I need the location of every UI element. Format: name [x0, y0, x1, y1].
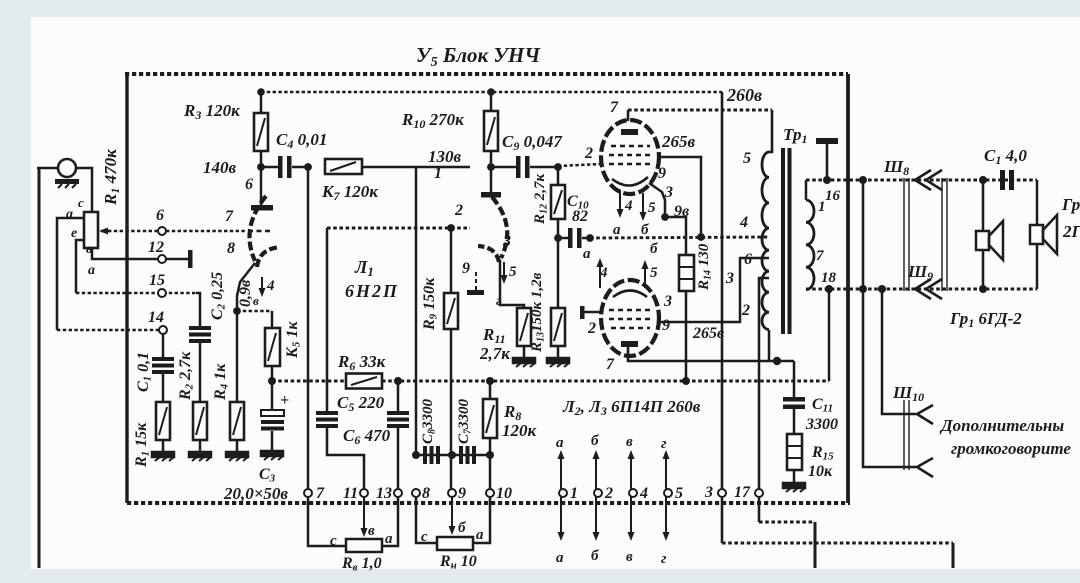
svg-text:9: 9	[662, 317, 670, 334]
svg-text:5: 5	[650, 265, 658, 281]
wire mic left	[37, 167, 58, 170]
wire L2 screen to tap4	[658, 157, 701, 237]
transformer secondary winding	[806, 200, 814, 290]
terminal 3	[718, 489, 726, 497]
grid wire dash to second triode	[327, 227, 470, 230]
svg-text:б: б	[591, 433, 599, 449]
connector Sh8 chevrons	[915, 170, 931, 190]
svg-text:11: 11	[343, 485, 358, 502]
cathode L1b to R11	[500, 260, 524, 308]
svg-text:4: 4	[739, 214, 748, 231]
wire coil bottom to plate wire	[768, 330, 771, 361]
svg-text:с: с	[330, 533, 337, 549]
terminal 2 with arrows	[594, 489, 602, 497]
svg-text:4: 4	[599, 265, 608, 281]
potentiometer R1	[84, 212, 98, 248]
junction bus R8	[486, 377, 494, 385]
wire R4 column	[236, 311, 239, 402]
svg-text:13: 13	[376, 485, 392, 502]
svg-text:3: 3	[663, 293, 672, 310]
terminal 7	[304, 489, 312, 497]
svg-text:а: а	[583, 246, 591, 262]
resistor R3	[254, 113, 268, 151]
wire Rn loop left	[416, 497, 437, 543]
svg-text:7: 7	[610, 99, 619, 116]
svg-text:1: 1	[434, 165, 442, 182]
wire C4 junction down to terminal 7	[307, 167, 310, 489]
terminal 17	[755, 489, 763, 497]
triode L1a plate bar	[251, 205, 273, 211]
wire R15 ground	[793, 470, 796, 483]
junction ground speaker wire	[823, 176, 831, 184]
svg-text:R14 130: R14 130	[696, 243, 714, 291]
wire L2 plate to transformer tap5	[627, 110, 630, 121]
wire R1 to ground	[162, 440, 165, 452]
capacitor C6	[397, 381, 400, 411]
terminal 14	[159, 326, 167, 334]
speaker return wire y289	[806, 288, 1037, 291]
ground C3	[261, 451, 283, 460]
svg-text:5: 5	[648, 200, 656, 216]
svg-text:а: а	[66, 207, 73, 222]
junction plate wire coil	[773, 357, 781, 365]
wire long left vertical	[38, 168, 41, 568]
block U5 border top	[125, 72, 848, 76]
wire C2 to R2	[199, 343, 202, 402]
wire C3 ground	[271, 431, 274, 451]
svg-text:б: б	[591, 548, 599, 564]
tube L3 envelope	[601, 280, 659, 356]
svg-text:15: 15	[149, 272, 165, 289]
wire L3 plate y361	[628, 347, 794, 361]
node 260v supply rail wire	[261, 91, 722, 94]
chevron W10 upper	[917, 405, 933, 424]
wire C1 to R1	[162, 374, 165, 402]
main bus wire left of R6	[272, 380, 346, 383]
cathode L2 wire to R14	[649, 183, 665, 217]
capacitor C4	[261, 166, 278, 169]
junction C9 out	[554, 163, 562, 171]
junction y289 W10a	[859, 285, 867, 293]
svg-text:8: 8	[227, 240, 235, 257]
svg-text:20,0×50в: 20,0×50в	[223, 484, 288, 503]
svg-text:C9 0,047: C9 0,047	[502, 132, 563, 153]
tube L3 top inner arc	[613, 291, 647, 298]
svg-text:5: 5	[743, 150, 751, 167]
connector Sh8 lines	[903, 178, 905, 291]
wire R3 top	[260, 92, 263, 113]
svg-text:Гр: Гр	[1061, 195, 1080, 214]
wire secondary top	[805, 180, 808, 200]
svg-text:громкоговорите: громкоговорите	[951, 439, 1071, 458]
svg-text:7: 7	[316, 485, 325, 502]
resistor R9	[444, 293, 458, 329]
resistor R5	[265, 328, 280, 366]
wire R4 ground	[236, 440, 239, 452]
junction after C10	[586, 234, 594, 242]
resistor R12	[557, 167, 560, 185]
svg-text:1: 1	[570, 485, 578, 502]
svg-text:в: в	[626, 434, 633, 450]
svg-text:18: 18	[821, 270, 837, 286]
wire capacitor row y455	[416, 454, 490, 457]
junction grid wire R9	[447, 224, 455, 232]
capacitor C8	[423, 446, 427, 464]
capacitor C11	[783, 397, 805, 402]
wire Rv loop right	[382, 497, 398, 546]
capacitor C9	[491, 166, 516, 169]
svg-text:в: в	[368, 523, 375, 539]
wire y238 to transformer tap 4	[590, 237, 769, 238]
svg-text:17: 17	[734, 484, 751, 501]
wire to terminal 15	[76, 292, 196, 295]
svg-text:4: 4	[266, 278, 275, 294]
speaker Gr2 wire	[1036, 180, 1039, 225]
capacitor C1	[152, 357, 174, 361]
svg-text:б: б	[641, 222, 649, 238]
triode L1a cathode hook	[257, 247, 280, 267]
svg-text:Л2, Л3 6П14П 260в: Л2, Л3 6П14П 260в	[562, 397, 701, 418]
svg-text:в: в	[626, 549, 633, 565]
resistor R7	[325, 159, 362, 174]
svg-text:К5 1к: К5 1к	[284, 321, 303, 359]
wire plate down to C11	[793, 361, 796, 397]
wire R7 right to 130v node	[362, 166, 470, 169]
svg-text:3: 3	[704, 484, 713, 501]
terminal 11	[360, 489, 368, 497]
svg-text:б: б	[458, 520, 466, 536]
wire wiper to grid (terminal 6)	[108, 230, 247, 233]
transformer primary winding	[762, 152, 769, 330]
triode L1b cathode hook	[478, 246, 499, 262]
svg-text:R1 470к: R1 470к	[101, 149, 122, 206]
junction y289 W10b	[878, 285, 886, 293]
connector Sh10 lines	[903, 400, 905, 470]
grid stub L3	[580, 306, 585, 319]
svg-text:10к: 10к	[808, 463, 833, 480]
terminal 6	[158, 227, 166, 235]
svg-text:10: 10	[496, 485, 512, 502]
transformer core	[781, 148, 785, 334]
speaker Gr1	[976, 231, 989, 250]
svg-text:г: г	[661, 551, 667, 567]
arrow 11 down to Rv	[363, 497, 365, 530]
wire R10 top	[490, 92, 493, 111]
cathode wire L1a to 0.9v node	[237, 263, 255, 311]
terminal 13	[394, 489, 402, 497]
svg-text:C73300: C73300	[456, 398, 474, 444]
svg-text:Дополнительны: Дополнительны	[939, 416, 1064, 435]
resistor R14	[679, 255, 694, 291]
resistor Rn	[437, 537, 473, 550]
svg-text:7: 7	[225, 208, 234, 225]
svg-text:5: 5	[509, 264, 517, 280]
triode L1a grid dashes	[248, 230, 270, 233]
svg-text:260в: 260в	[726, 85, 762, 105]
tube L2 grid dashes	[611, 145, 650, 148]
capacitor C2	[189, 326, 211, 330]
svg-text:2: 2	[454, 202, 463, 219]
wire y289 down to bus	[828, 289, 831, 381]
capacitor C10	[558, 237, 568, 240]
wire bottom exit right down	[952, 543, 955, 568]
svg-text:C5 220: C5 220	[337, 393, 385, 414]
tube L2 envelope	[601, 120, 659, 194]
wire R2 to ground	[199, 440, 202, 452]
wire Rn loop right	[473, 497, 490, 543]
svg-text:в: в	[253, 293, 259, 308]
wire C11 to R15	[793, 409, 796, 434]
svg-text:а: а	[88, 263, 95, 278]
svg-text:а: а	[385, 531, 393, 547]
junction y180 W10 branch	[859, 176, 867, 184]
svg-text:г: г	[496, 294, 501, 309]
svg-text:Rн 10: Rн 10	[439, 553, 477, 572]
wire rail down to terminal 3	[721, 92, 724, 489]
svg-text:6: 6	[744, 251, 752, 268]
wire 14 down to C1	[162, 334, 165, 357]
svg-text:130в: 130в	[428, 147, 462, 166]
svg-text:3: 3	[725, 270, 734, 287]
block U5 border right	[846, 74, 850, 503]
capacitor C1 speaker	[1000, 170, 1005, 190]
junction 130v node	[487, 163, 495, 171]
svg-text:Rв 1,0: Rв 1,0	[341, 555, 382, 574]
svg-text:9: 9	[658, 165, 666, 182]
resistor R11	[517, 308, 531, 346]
tube L3 grid dashes	[609, 309, 652, 312]
speaker Gr2	[1030, 225, 1043, 244]
junction 0.9v	[233, 307, 241, 315]
svg-text:16: 16	[825, 188, 841, 204]
wire R5 bottom	[271, 366, 274, 381]
resistor R2	[193, 402, 207, 440]
wire L3 screen to tap6	[659, 258, 769, 322]
resistor R1 15k	[156, 402, 170, 440]
terminal 4 with arrows	[629, 489, 637, 497]
svg-text:265в: 265в	[661, 132, 696, 151]
svg-text:C6 470: C6 470	[343, 426, 391, 447]
arrow pin 5 L1b	[503, 262, 505, 278]
wire R12 bottom	[557, 219, 560, 238]
svg-text:R1 15к: R1 15к	[133, 422, 152, 468]
svg-text:3300: 3300	[805, 416, 838, 433]
junction R10 rail	[487, 88, 495, 96]
junction y289 speaker1	[979, 285, 987, 293]
wire to R5 top	[271, 311, 274, 328]
capacitor C3 electrolytic	[271, 381, 274, 410]
svg-text:6: 6	[245, 176, 253, 193]
junction bus C6	[394, 377, 402, 385]
junction R5 bus	[268, 377, 276, 385]
terminal 8	[412, 489, 420, 497]
svg-text:+: +	[280, 392, 289, 409]
svg-text:R4 1к: R4 1к	[212, 363, 231, 401]
arrow 9 down to Rn	[451, 497, 453, 528]
resistor R10	[484, 111, 498, 151]
ground R2	[189, 452, 211, 461]
junction C4 R7	[304, 163, 312, 171]
terminal 9	[448, 489, 456, 497]
svg-text:4: 4	[624, 198, 633, 214]
resistor R4	[230, 402, 244, 440]
arrow pin 4 down	[261, 277, 263, 292]
junction C10 node	[554, 234, 562, 242]
wire 15 down to C2 column	[196, 293, 200, 326]
tube L2 anode bar	[621, 129, 638, 135]
svg-text:82: 82	[572, 208, 588, 225]
svg-text:120к: 120к	[502, 421, 537, 440]
chevron W10 lower	[917, 458, 933, 477]
svg-text:R3 120к: R3 120к	[183, 101, 240, 122]
wire terminal 3 below block	[721, 497, 724, 543]
wire 0.9v to R5	[237, 310, 272, 313]
ground R1	[152, 452, 174, 461]
svg-text:Гр1 6ГД-2: Гр1 6ГД-2	[949, 309, 1022, 330]
svg-text:2Г: 2Г	[1062, 222, 1080, 241]
wire R10 bottom	[490, 151, 493, 192]
svg-text:5: 5	[675, 485, 683, 502]
junction R3 rail	[257, 88, 265, 96]
svg-text:C83300: C83300	[420, 398, 438, 444]
ground R13	[557, 346, 560, 358]
svg-text:г: г	[661, 436, 667, 452]
svg-text:R6 33к: R6 33к	[337, 352, 386, 373]
capacitor C5	[316, 411, 338, 415]
wire pot mid-left	[76, 240, 84, 293]
svg-text:2: 2	[587, 320, 596, 337]
svg-text:с: с	[421, 529, 428, 545]
terminal 1 with arrows	[559, 489, 567, 497]
svg-text:C2 0,25: C2 0,25	[209, 272, 228, 320]
svg-text:12: 12	[148, 239, 164, 256]
wire tap3 to terminal 17	[759, 278, 769, 489]
svg-text:9: 9	[458, 485, 466, 502]
svg-text:C1 4,0: C1 4,0	[984, 146, 1027, 167]
svg-text:C1 0,1: C1 0,1	[135, 352, 154, 392]
svg-text:R2 2,7к: R2 2,7к	[177, 351, 196, 401]
junction y180 speaker1	[979, 176, 987, 184]
speaker Gr1 wire	[982, 180, 985, 231]
capacitor C7	[459, 446, 463, 464]
junction y455 right	[486, 451, 494, 459]
wire W10 upper	[882, 289, 916, 414]
block U5 border bottom	[127, 501, 850, 505]
svg-text:а: а	[556, 435, 564, 451]
svg-text:6Н2П: 6Н2П	[345, 281, 399, 301]
terminal 12	[158, 255, 166, 263]
svg-text:К7 120к: К7 120к	[321, 182, 378, 203]
wire R14 to bus	[685, 291, 688, 381]
tube L3 anode bar	[621, 341, 638, 347]
main bus wire right of R6	[382, 380, 829, 383]
wire C9 to L2 grid	[558, 164, 601, 166]
junction y455 left	[412, 451, 420, 459]
svg-text:а: а	[556, 550, 564, 566]
junction y455 mid	[448, 451, 456, 459]
svg-text:9: 9	[462, 260, 470, 277]
terminal 10	[486, 489, 494, 497]
svg-text:140в: 140в	[203, 158, 237, 177]
junction screen tap4	[697, 233, 705, 241]
triode L1b plate bar	[481, 192, 501, 198]
svg-text:2: 2	[604, 485, 613, 502]
svg-text:6: 6	[156, 207, 164, 224]
resistor R6	[346, 374, 382, 389]
wire to terminal 14	[57, 329, 163, 332]
ground R11	[523, 346, 526, 358]
triode L1b envelope arc	[492, 197, 507, 258]
ground stub pin 9	[475, 272, 477, 290]
wire C6 down to terminal 13	[397, 428, 400, 489]
svg-text:14: 14	[148, 309, 164, 326]
wire R8 down to terminal 10	[489, 438, 492, 489]
terminal 15	[158, 289, 166, 297]
triode L1a envelope arc	[250, 196, 266, 261]
svg-text:а: а	[476, 527, 484, 543]
svg-text:R10 270к: R10 270к	[401, 110, 464, 131]
ground R15	[783, 483, 805, 492]
block U5 border left	[125, 75, 128, 503]
svg-text:R9 150к: R9 150к	[421, 277, 440, 331]
wire R9 down to terminal 9	[450, 329, 453, 489]
svg-text:4: 4	[639, 485, 648, 502]
microphone symbol	[58, 159, 76, 177]
wire C5 down to terminal 11	[327, 428, 364, 489]
wire R9 top	[450, 228, 453, 293]
resistor R15	[787, 434, 802, 470]
svg-text:265в: 265в	[692, 325, 724, 342]
wire grid corner down C5	[326, 228, 329, 411]
resistor Rv	[346, 539, 382, 552]
wire pot bottom to terminal 12	[92, 248, 190, 259]
junction y289 bus branch	[825, 285, 833, 293]
svg-text:7: 7	[816, 248, 824, 264]
svg-text:3: 3	[502, 233, 511, 250]
wire down from R7 node to terminal 8	[415, 167, 418, 455]
wire mic right to pot	[76, 168, 92, 212]
heater arrows L2 down	[619, 190, 621, 211]
chassis ground at 12	[188, 250, 193, 268]
svg-text:8: 8	[422, 485, 430, 502]
pot wiper arrow	[101, 230, 110, 233]
svg-text:2: 2	[584, 145, 593, 162]
svg-text:0,9в: 0,9в	[237, 280, 254, 307]
heater arrows L3 up	[599, 265, 601, 288]
junction R14 bus	[682, 377, 690, 385]
svg-text:а: а	[613, 222, 621, 238]
svg-text:с: с	[78, 195, 84, 210]
svg-text:7: 7	[606, 356, 615, 373]
svg-text:R12 2,7к: R12 2,7к	[532, 173, 550, 225]
svg-text:2: 2	[741, 302, 750, 319]
resistor R8	[489, 381, 492, 399]
wire bottom exit right	[722, 542, 953, 545]
ground T symbol	[816, 138, 838, 144]
speaker hot wire y180	[806, 179, 1037, 182]
wire terminal 17 below	[758, 497, 761, 522]
wire Rv loop left	[308, 497, 346, 546]
svg-text:C4 0,01: C4 0,01	[276, 130, 327, 151]
wire W10 lower	[863, 180, 916, 467]
wire pot top-left	[57, 218, 84, 330]
tube L2 cathode arc	[612, 177, 648, 186]
svg-text:б: б	[650, 241, 658, 257]
connector Sh9 chevrons	[915, 279, 931, 299]
terminal 5 with arrows	[664, 489, 672, 497]
wire R3 bottom to plate	[260, 151, 263, 205]
svg-text:2,7к: 2,7к	[479, 344, 510, 363]
